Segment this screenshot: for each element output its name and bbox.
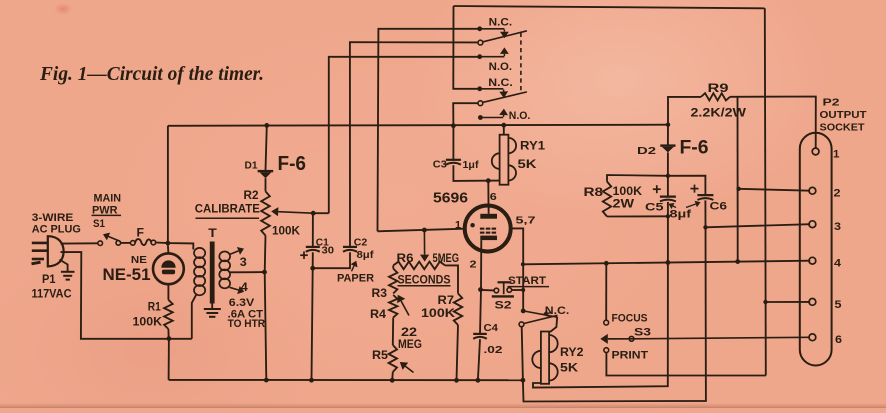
wire: R4 to R5: [392, 318, 394, 346]
svg-text:PWR: PWR: [92, 204, 118, 216]
connector P1 3-wire AC plug: [32, 212, 81, 300]
socket pin 2: [809, 187, 841, 199]
svg-text:S1: S1: [93, 218, 105, 230]
wire: fuse to transformer primary top: [156, 243, 194, 250]
svg-text:F-6: F-6: [278, 152, 307, 175]
resistor R5: [372, 345, 397, 372]
node: C1-C2 bottom junction: [310, 266, 315, 271]
resistor R1 100K: [133, 300, 173, 329]
wire: left end of ground bus: [168, 339, 170, 380]
svg-text:N.O.: N.O.: [489, 61, 512, 73]
svg-text:NE-51: NE-51: [103, 265, 151, 284]
wire: pin 5 line: [766, 301, 811, 303]
node: wiper-C1 junction: [311, 211, 316, 216]
svg-text:4: 4: [241, 282, 249, 294]
node: R1-neutral junction: [167, 336, 172, 341]
svg-text:SECONDS: SECONDS: [398, 275, 451, 287]
heater lead pin 4: [228, 282, 266, 330]
svg-text:2W: 2W: [613, 199, 635, 211]
capacitor C1 30 (electrolytic): [300, 236, 334, 259]
wire: R9 feed line: [668, 97, 701, 125]
wire: N.O.1 to calibrate wiper riser: [329, 57, 478, 213]
svg-text:5K: 5K: [560, 363, 579, 375]
wire: cathode pin2 drop: [480, 240, 481, 334]
node: bus-relay arm: [521, 378, 526, 383]
svg-text:MAIN: MAIN: [94, 193, 122, 205]
wire: main B+ rail: [168, 125, 668, 126]
node: CT-R2 junction: [262, 270, 267, 275]
relay contact set 2 N.C.: [477, 77, 512, 98]
socket pin 4: [809, 257, 842, 269]
node: NC switch top: [521, 309, 526, 314]
svg-text:3: 3: [834, 221, 841, 233]
svg-text:FOCUS: FOCUS: [612, 313, 648, 325]
svg-text:100K: 100K: [272, 225, 301, 237]
wire: cathode line to pin 4: [523, 261, 810, 265]
diode D1 F-6: [245, 152, 307, 178]
svg-text:22: 22: [401, 327, 417, 339]
node: bus-R7: [454, 378, 459, 383]
svg-text:T: T: [208, 226, 217, 240]
svg-text:R3: R3: [372, 288, 388, 300]
svg-text:.02: .02: [484, 344, 503, 356]
svg-text:P1: P1: [42, 274, 56, 286]
svg-text:RY1: RY1: [520, 141, 546, 153]
wire: secondary center tap: [230, 271, 264, 273]
resistor R7 100K: [421, 294, 462, 326]
wire: wiper node down to C1: [312, 213, 314, 247]
switch S3 arm to pin 6: [600, 334, 810, 344]
wire: top relay rail: [454, 6, 765, 8]
wire: pin2 node to S2: [481, 289, 495, 292]
svg-text:C4: C4: [484, 322, 499, 334]
svg-text:6: 6: [835, 334, 842, 346]
wire: grid line from riser to tube pin 1: [378, 229, 465, 232]
switch S1 MAIN PWR: [92, 193, 122, 246]
wire: PRINT return line: [606, 353, 765, 376]
node: rail-D1 junction: [264, 123, 269, 128]
svg-text:1: 1: [455, 219, 461, 231]
transformer T: [194, 226, 230, 304]
node: C5 line junction: [666, 260, 671, 265]
svg-text:3-WIRE: 3-WIRE: [32, 212, 74, 224]
svg-text:N.C.: N.C.: [489, 17, 513, 29]
socket pin 3: [809, 221, 841, 233]
capacitor C6 8uf (electrolytic): [670, 185, 728, 221]
svg-text:5696: 5696: [433, 191, 468, 207]
svg-text:C5: C5: [645, 202, 664, 214]
svg-text:1: 1: [833, 149, 840, 161]
wire: NC circle to bus: [522, 327, 523, 381]
capacitor C2 8uf PAPER: [337, 236, 374, 284]
wire: riser from R9 line: [737, 97, 739, 262]
relay coil RY1 5K: [492, 125, 546, 185]
svg-text:R6: R6: [397, 253, 414, 265]
potentiometer R6 5MEG SECONDS: [393, 253, 459, 287]
fuse F: [131, 228, 156, 246]
wire: R5 to bus: [391, 372, 394, 380]
node: rail-D2 junction: [666, 123, 670, 127]
wire: R1 to neutral: [167, 329, 169, 339]
potentiometer R2 100K CALIBRATE: [195, 190, 301, 238]
svg-text:CALIBRATE: CALIBRATE: [195, 203, 260, 215]
svg-text:C2: C2: [354, 236, 368, 248]
svg-text:D2: D2: [637, 145, 656, 157]
wire: pin 5,7 lead: [511, 228, 524, 311]
svg-text:N.C.: N.C.: [545, 305, 570, 317]
svg-text:TO HTR: TO HTR: [228, 318, 266, 330]
resistor R4 22 MEG: [370, 295, 422, 351]
wire: S1 to fuse F: [121, 242, 131, 244]
wire: rail left drop to switch node: [167, 126, 169, 242]
wire: C3 bottom to tube plate node: [453, 165, 499, 181]
tube U1 5696: [433, 191, 536, 271]
wiper arrow of R4: [401, 301, 409, 316]
socket pin 6: [809, 334, 842, 346]
wire: plug hot to S1: [61, 242, 98, 244]
relay coil RY2 5K: [532, 332, 583, 384]
wire: C5 bottom down: [667, 202, 669, 263]
svg-text:5MEG: 5MEG: [433, 253, 460, 265]
wire: bottom ground bus: [169, 379, 523, 381]
svg-text:4: 4: [834, 258, 842, 270]
node: focus drop junction: [604, 261, 609, 266]
switch contact N.C. (relay RY2 path): [519, 305, 569, 327]
svg-text:F-6: F-6: [680, 138, 709, 159]
wire: pin6 lead: [487, 181, 489, 204]
arrows: 8uf callouts to C5 and C6: [673, 206, 676, 208]
svg-text:C6: C6: [710, 201, 728, 213]
svg-text:OUTPUT: OUTPUT: [820, 109, 868, 121]
wire: S2 to cathode riser: [512, 289, 524, 291]
ground at plug: [60, 260, 75, 280]
svg-text:R8: R8: [584, 187, 604, 199]
relay contact set 2 N.O.: [478, 109, 530, 122]
wire: link to C6 top: [668, 176, 706, 195]
svg-text:C3: C3: [433, 159, 447, 171]
wire: R6 right end to R7: [445, 265, 458, 293]
wire: pin 2 line: [739, 189, 811, 191]
svg-text:R9: R9: [708, 83, 729, 95]
node: cathode-pin4 T: [521, 262, 525, 266]
svg-text:8μf: 8μf: [357, 249, 375, 261]
svg-text:R1: R1: [148, 301, 162, 313]
svg-text:D1: D1: [245, 160, 258, 172]
mechanical link dashed line: [520, 33, 522, 91]
svg-text:S2: S2: [495, 300, 512, 312]
heater lead pin 3: [230, 247, 247, 269]
svg-text:F: F: [137, 228, 145, 240]
socket pin 5: [809, 299, 842, 312]
relay contact set 1 common and arm: [478, 31, 527, 45]
relay contact set 2 common and arm: [478, 92, 527, 106]
node: pin2 junction: [736, 187, 740, 191]
svg-text:PAPER: PAPER: [337, 272, 374, 284]
svg-text:PRINT: PRINT: [612, 350, 649, 362]
svg-text:R4: R4: [370, 309, 387, 321]
wire: arm tip to RY2 top: [550, 317, 557, 332]
wire: wiper line to N.O.1 riser: [313, 212, 329, 214]
node: rail-RY1 junction: [501, 123, 506, 128]
wire: C6 line continues down: [523, 227, 706, 401]
relay contact set 1 N.O.: [477, 47, 512, 73]
resistor R3: [372, 269, 398, 301]
svg-text:AC PLUG: AC PLUG: [32, 224, 81, 236]
node: pin3 corner: [703, 225, 707, 229]
wire: drop from top rail to contact K2 NC: [453, 6, 477, 89]
svg-text:6.3V: 6.3V: [229, 297, 255, 309]
resistor R8 100K 2W: [584, 182, 643, 217]
svg-text:100K: 100K: [613, 186, 643, 198]
pushbutton S2 START: [492, 275, 549, 312]
svg-text:S3: S3: [634, 327, 651, 339]
node: pin5 junction: [763, 300, 767, 304]
svg-text:30: 30: [322, 244, 335, 256]
svg-text:2: 2: [470, 259, 477, 271]
wire: N.C.1 to grid feed riser: [378, 29, 478, 232]
node: bus-R2: [264, 378, 269, 383]
node: plate node junction: [486, 178, 491, 183]
wire: C4 to bus: [478, 339, 480, 380]
node: S2-riser junction: [521, 288, 525, 292]
connector P2 OUTPUT SOCKET: [800, 97, 867, 366]
switch S3 PRINT contact: [604, 348, 648, 362]
switch S3 FOCUS contact: [604, 313, 651, 339]
svg-text:P2: P2: [823, 97, 840, 109]
svg-text:5K: 5K: [518, 159, 538, 171]
wire: common2 down to B+ rail: [453, 103, 478, 125]
capacitor C4 .02: [473, 322, 502, 356]
wire: C6 bottom to pin3 line: [704, 200, 706, 227]
relay contact set 1 N.C.: [477, 17, 512, 39]
svg-text:N.C.: N.C.: [488, 77, 513, 89]
svg-text:100K: 100K: [421, 308, 456, 320]
wire: AC neutral from plug: [61, 252, 192, 339]
wire: R8 top rail: [607, 175, 668, 182]
wire: R9 to socket pin 1: [730, 97, 816, 149]
wire: R7 to bus: [457, 325, 459, 380]
wire: neutral riser to primary bottom: [192, 295, 197, 339]
node: fuse output NE-51 top: [166, 241, 171, 246]
wiper of R6: [423, 230, 425, 255]
wire: NE-51 to R1: [167, 284, 169, 300]
svg-text:5,7: 5,7: [516, 215, 536, 227]
wire: D2 to C5 top node: [667, 152, 669, 196]
wire: C1 bottom to bus: [312, 252, 313, 380]
svg-text:R7: R7: [438, 295, 455, 307]
svg-text:5: 5: [835, 299, 842, 311]
wiper arrow of R5: [405, 366, 413, 372]
ground at transformer core: [204, 304, 221, 317]
wire: R2 bottom to CT and bus: [265, 236, 267, 381]
wire: rail to D1: [266, 125, 267, 170]
node: riser junction on pin4 line: [735, 259, 740, 264]
capacitor C5 8uf (electrolytic): [645, 185, 676, 213]
node: rail-C3 junction: [451, 123, 456, 128]
svg-text:SOCKET: SOCKET: [820, 122, 866, 134]
node: C5 bottom junction: [666, 214, 670, 218]
svg-text:6: 6: [490, 191, 497, 203]
wire: C2 bottom link: [313, 252, 350, 268]
svg-text:START: START: [508, 275, 546, 287]
resistor R9 2.2K/2W: [691, 83, 747, 120]
node: grid-R6 wiper junction: [422, 228, 427, 233]
node: bus-R5: [390, 378, 395, 383]
svg-text:R2: R2: [244, 190, 259, 202]
wire: focus drop: [605, 263, 607, 320]
capacitor C3 1uf: [433, 159, 479, 172]
wire: R6 left end down: [392, 265, 394, 268]
svg-text:1μf: 1μf: [463, 159, 480, 171]
neon lamp NE-51: [103, 245, 184, 284]
svg-text:8μf: 8μf: [670, 209, 692, 221]
wire: pin 3 line: [706, 224, 811, 227]
svg-text:RY2: RY2: [560, 347, 584, 359]
socket pin 1: [812, 148, 839, 160]
svg-text:100K: 100K: [133, 316, 163, 328]
wire: D2 branch: [667, 125, 669, 145]
node: bus-C4: [476, 378, 481, 383]
wire: D1 to R2: [265, 178, 267, 191]
wire: common1 to C2 riser: [350, 42, 478, 247]
svg-text:Fig. 1—Circuit of the timer.: Fig. 1—Circuit of the timer.: [39, 64, 264, 85]
diode D2 F-6: [637, 138, 709, 159]
wire: right riser from top rail: [765, 8, 766, 375]
node: C5 top link junction: [666, 174, 670, 178]
wire: RY2 bottom hook to C5 drop line: [533, 263, 668, 388]
svg-text:117VAC: 117VAC: [32, 288, 72, 300]
wire: R8 bottom rail: [607, 215, 668, 217]
svg-text:2: 2: [834, 188, 841, 200]
svg-text:R5: R5: [372, 350, 389, 362]
svg-text:N.O.: N.O.: [509, 110, 531, 122]
node: pin2-S2 junction: [478, 287, 483, 292]
wire: rail to C3: [452, 126, 454, 160]
svg-text:3: 3: [240, 257, 247, 269]
node: bus-C1: [309, 378, 314, 383]
svg-text:MEG: MEG: [398, 339, 422, 351]
arrow: PAPER callout: [352, 266, 355, 272]
wiper arrow of R2: [278, 212, 313, 214]
